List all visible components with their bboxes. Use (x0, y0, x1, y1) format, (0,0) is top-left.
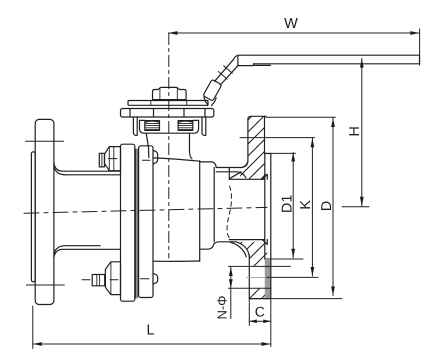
dimension C (249, 299, 270, 347)
body flange plate 1 (left body half flange) (121, 144, 135, 301)
bonnet column (146, 133, 192, 159)
packing box right (178, 121, 193, 131)
svg-text:D: D (319, 201, 335, 211)
svg-text:L: L (146, 323, 154, 339)
gland bracket right (202, 117, 206, 135)
svg-text:C: C (255, 304, 265, 320)
body end connector (right) (200, 161, 250, 257)
gland bracket left (133, 117, 137, 135)
right flange hatching bottom lower (238, 238, 322, 310)
pipe centerline (dashed) (24, 207, 267, 213)
handle foot (204, 96, 216, 106)
handle stop plate (128, 101, 208, 106)
stem hex nut (153, 87, 187, 99)
packing box left (145, 121, 160, 131)
handle collar (203, 79, 222, 101)
dimension L (33, 306, 271, 349)
mounting plate (121, 109, 214, 118)
svg-text:N-Φ: N-Φ (214, 295, 229, 319)
dimension K (240, 138, 318, 278)
dimension D (249, 117, 342, 298)
left neck pipe (54, 163, 121, 258)
left flange (valve inlet flange, side view) (31, 119, 54, 304)
dimension H (342, 59, 369, 207)
body stud nut top right (153, 150, 158, 164)
body stud bolt bottom (hex head) (82, 262, 149, 295)
body stud bolt top (hex head) (99, 147, 150, 171)
handle rod (215, 59, 239, 85)
right flange hatching bottom upper (214, 194, 326, 270)
dimension W (168, 29, 419, 65)
svg-text:H: H (347, 126, 363, 136)
right flange outline (229, 116, 270, 298)
body stud nut bottom right (153, 273, 158, 284)
body flange plate 2 (right body half flange) (139, 146, 153, 298)
ball hidden arc (dashed) (227, 186, 231, 239)
right flange gray raised-face band (265, 260, 271, 299)
left flange bolt hole centerline bottom (27, 284, 65, 286)
body joint gasket lines (136, 149, 137, 298)
bonnet gland housing (140, 120, 199, 133)
stem centerline (dash-dot) (168, 34, 170, 259)
handle rod tick 1 (218, 72, 227, 80)
dimension D1 (265, 153, 304, 260)
left flange bolt hole centerline top (26, 140, 64, 142)
dimension N-phi (bolt hole) (229, 267, 233, 319)
handle rod tick 2 (224, 66, 233, 74)
right flange bolt hole (229, 266, 291, 288)
svg-text:D1: D1 (279, 195, 295, 213)
svg-text:K: K (298, 200, 314, 210)
handle bar (234, 55, 420, 65)
valve body shell (right half) (153, 158, 200, 261)
svg-text:W: W (284, 16, 298, 32)
right flange hatching top (183, 98, 342, 185)
